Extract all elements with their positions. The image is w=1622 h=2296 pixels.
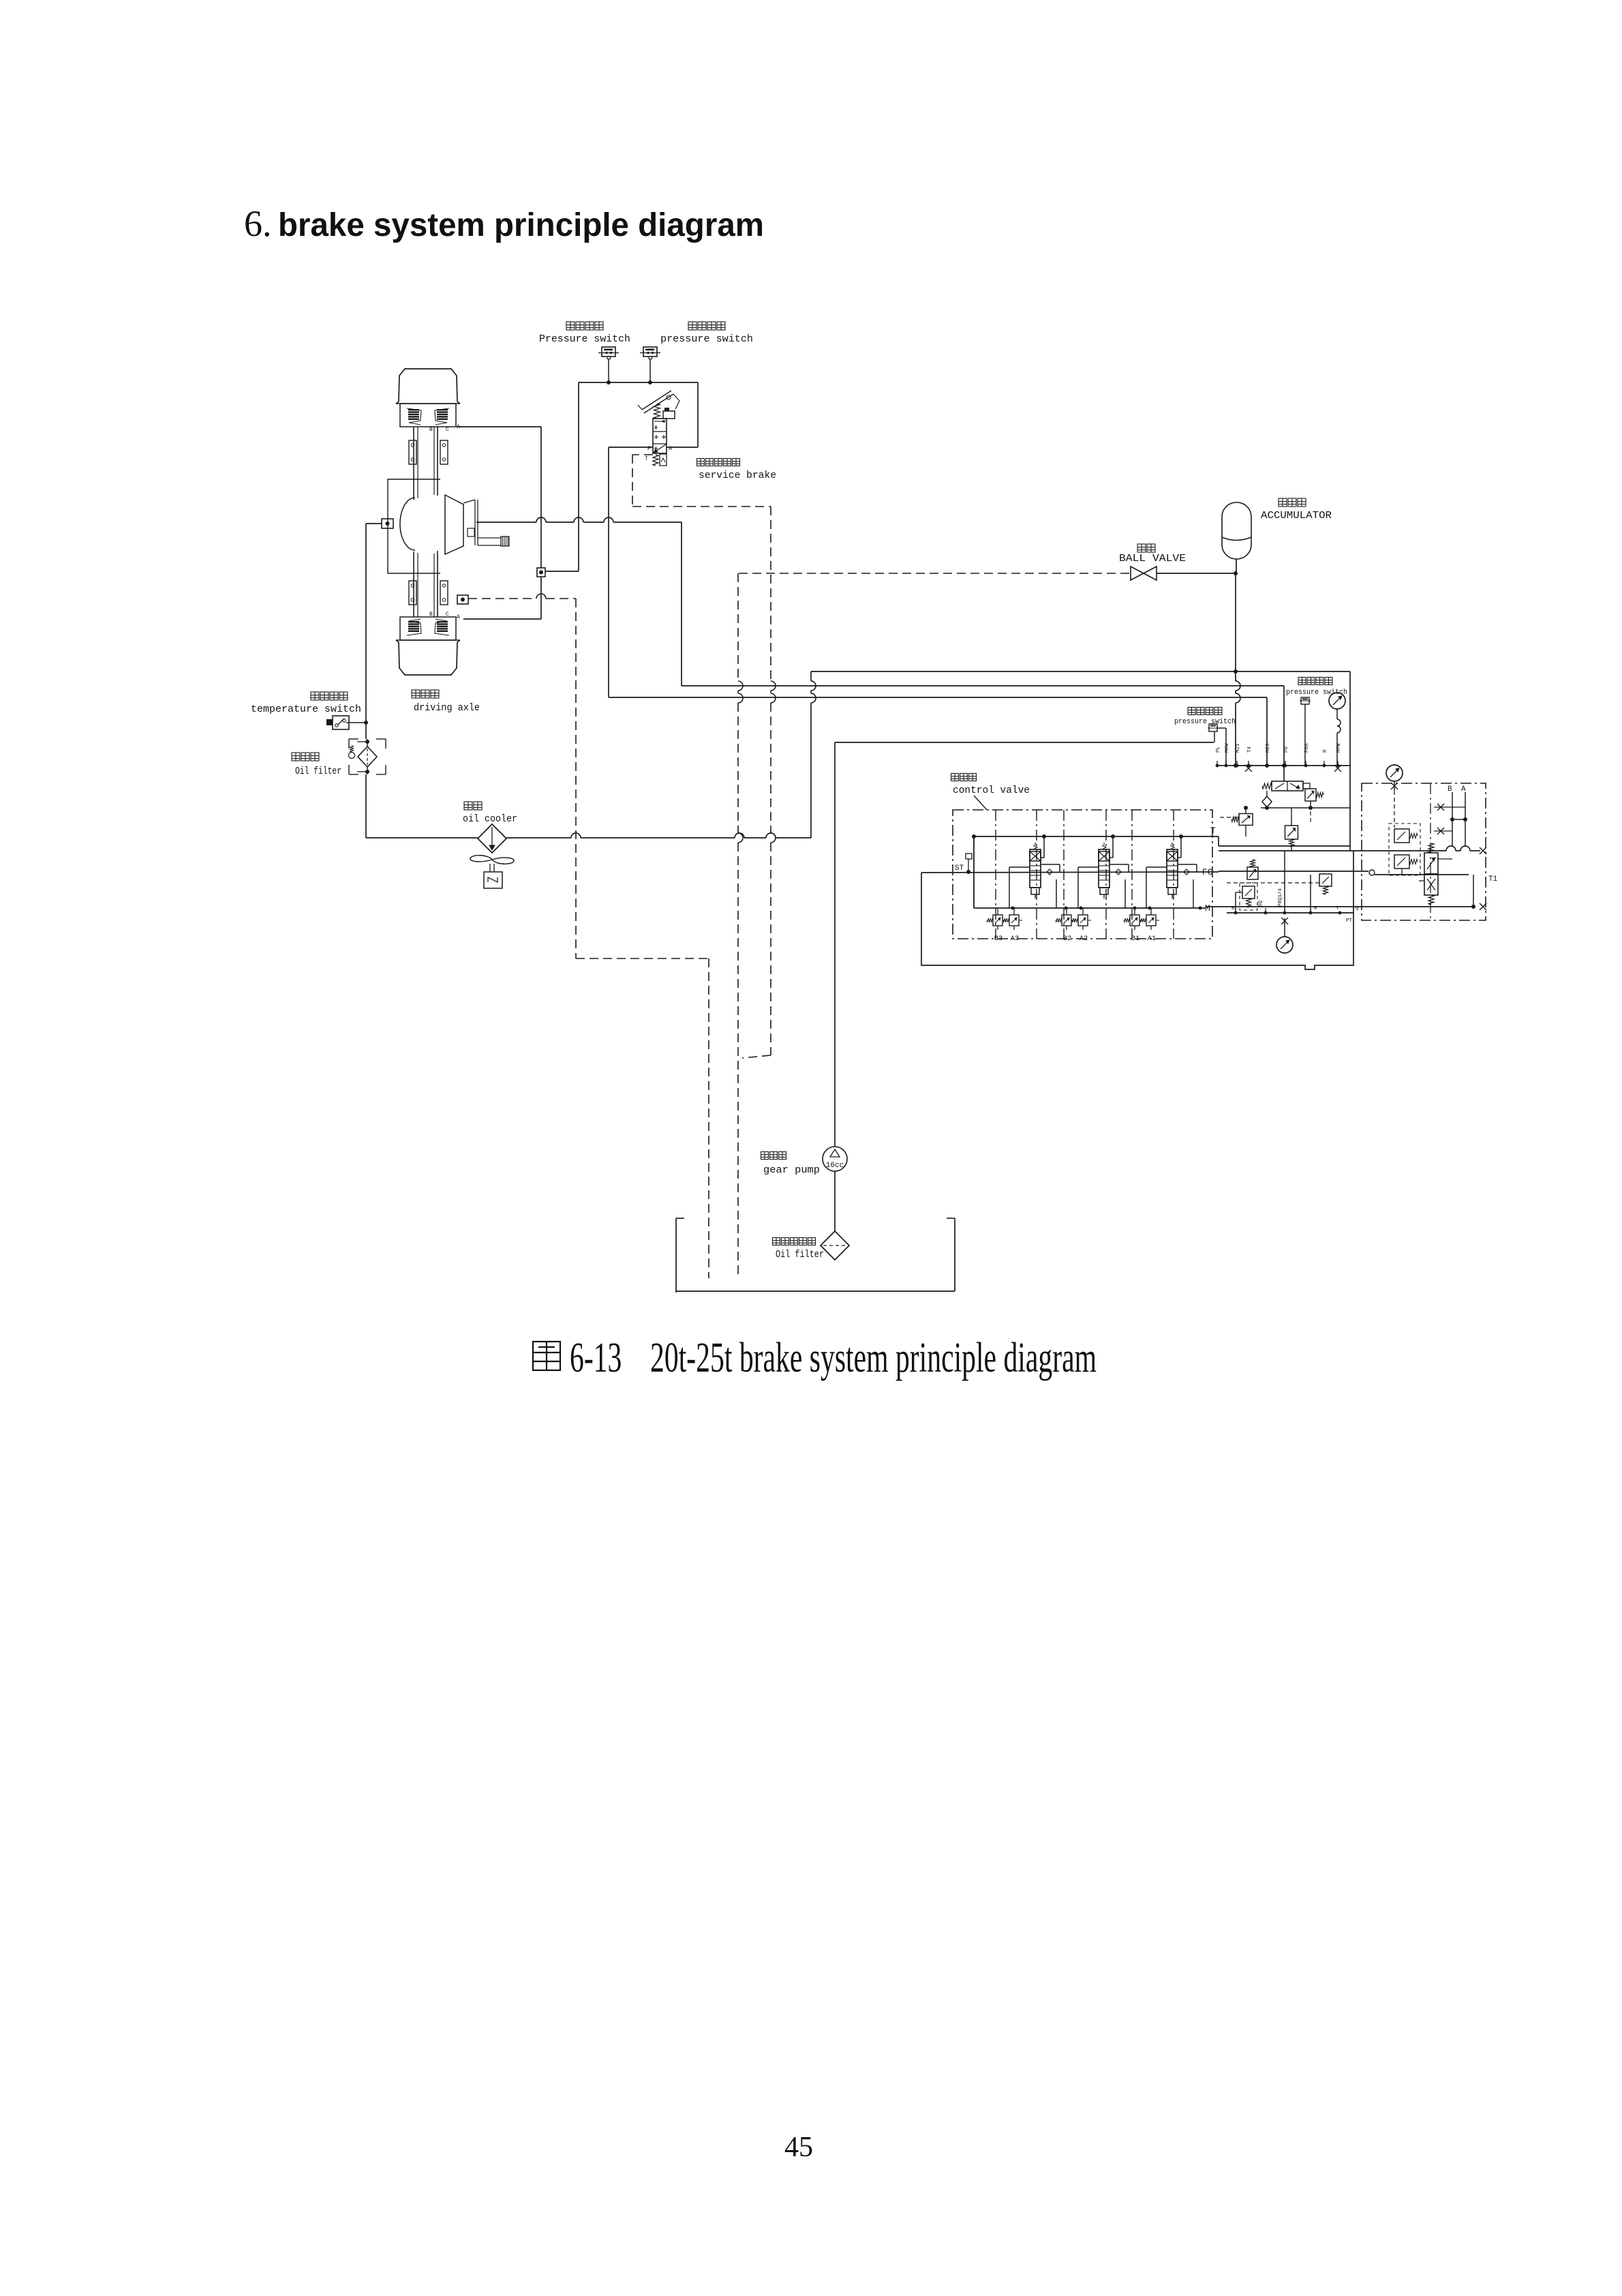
hydraulic tank xyxy=(676,1218,955,1293)
pressure switch PS3 xyxy=(1174,708,1236,766)
port relief valve A1 xyxy=(1140,908,1159,943)
oil cooler xyxy=(463,802,517,853)
svg-text:oil cooler: oil cooler xyxy=(463,813,517,825)
wire xyxy=(1266,697,1268,766)
orifice xyxy=(1434,804,1465,811)
wire xyxy=(1473,875,1498,907)
svg-text:R: R xyxy=(1314,906,1317,911)
svg-text:M21: M21 xyxy=(1236,743,1241,753)
suction oil filter F2 xyxy=(773,1231,850,1260)
pressure gauge G1 xyxy=(1329,693,1345,766)
temperature switch xyxy=(251,692,368,729)
wire: cooler output line xyxy=(506,837,571,839)
relief valve RV6 xyxy=(1389,824,1420,875)
directional valve V2 xyxy=(1419,843,1452,905)
cooling fan xyxy=(470,856,514,888)
wet disc brake (top) xyxy=(400,404,456,427)
relief valve RV5 xyxy=(1227,874,1332,894)
wire: accumulator to valve block xyxy=(1235,573,1236,681)
svg-text:6.: 6. xyxy=(244,203,272,244)
svg-text:T4: T4 xyxy=(1247,746,1253,753)
service brake valve xyxy=(638,391,776,481)
pilot line xyxy=(1220,817,1238,818)
svg-text:pressure switch: pressure switch xyxy=(1174,718,1236,726)
svg-text:Oil filter: Oil filter xyxy=(295,766,341,777)
svg-text:R: R xyxy=(1323,749,1328,753)
wire: service brake tank line xyxy=(632,455,771,507)
port labels xyxy=(1216,743,1342,753)
pilot operated valve block xyxy=(1362,783,1486,920)
svg-text:ST: ST xyxy=(955,864,964,873)
wire: service brake drain hose xyxy=(742,507,776,1058)
relief valve RV7 xyxy=(1394,855,1418,875)
svg-text:B2: B2 xyxy=(1063,935,1072,943)
differential housing xyxy=(388,479,440,573)
port relief valve B3 xyxy=(987,908,1006,943)
svg-text:B: B xyxy=(1231,906,1235,911)
svg-text:B: B xyxy=(429,611,433,618)
accumulator xyxy=(1222,498,1332,575)
wire xyxy=(810,671,812,681)
wire: pressure switch drop line xyxy=(578,382,579,571)
ball valve xyxy=(738,544,1236,580)
spool valve section B2/A2 xyxy=(1078,836,1129,908)
pressure switch PS4 xyxy=(1286,678,1347,766)
svg-text:16cc: 16cc xyxy=(826,1162,844,1170)
wire: B port xyxy=(1448,785,1467,847)
svg-text:MCW: MCW xyxy=(1225,743,1230,753)
pressure gauge G2 xyxy=(1386,765,1403,828)
T gallery junction dots xyxy=(972,834,976,839)
svg-text:PL: PL xyxy=(1216,746,1221,753)
wire: pump pressure line xyxy=(834,742,836,1147)
bottom port labels xyxy=(1231,888,1359,924)
wire: axle drain hose xyxy=(468,594,709,1278)
inner body boundary xyxy=(921,851,1353,969)
figure caption xyxy=(533,1342,560,1370)
svg-text:control valve: control valve xyxy=(953,785,1030,796)
gear pump 16cc xyxy=(761,1147,848,1176)
svg-text:ACCUMULATOR: ACCUMULATOR xyxy=(1261,510,1332,522)
wire: service brake pressure line xyxy=(609,697,1267,698)
port relief valve A3 xyxy=(1003,908,1022,943)
svg-text:C: C xyxy=(446,427,449,433)
svg-text:T: T xyxy=(645,456,648,462)
wire xyxy=(545,571,579,572)
svg-text:P8Q1/4: P8Q1/4 xyxy=(1278,888,1283,907)
svg-text:BALL VALVE: BALL VALVE xyxy=(1119,553,1186,564)
wire: service brake supply xyxy=(608,447,609,697)
brake valve block boundary xyxy=(835,671,1350,851)
svg-text:SQ: SQ xyxy=(1258,900,1264,907)
wire: ST/FC gallery xyxy=(921,854,1219,874)
wire: P main line xyxy=(1219,846,1486,854)
spool valve section B3/A3 xyxy=(1009,836,1060,908)
svg-text:PT: PT xyxy=(1346,918,1353,924)
orifice xyxy=(1434,828,1452,834)
spring mounting plates xyxy=(409,440,416,464)
pilot line xyxy=(1310,811,1311,822)
wire: pressure switch header xyxy=(579,382,698,383)
relief valve RV4 xyxy=(1236,883,1257,913)
svg-text:A3: A3 xyxy=(1011,935,1020,943)
svg-text:T: T xyxy=(1336,906,1339,911)
wire xyxy=(609,447,653,448)
wire: accumulator charge line xyxy=(811,671,1350,672)
svg-text:A: A xyxy=(457,614,460,620)
axle input flange and shaft xyxy=(445,495,463,554)
svg-text:B1: B1 xyxy=(1131,935,1140,943)
svg-text:B: B xyxy=(1448,785,1452,794)
svg-text:A2: A2 xyxy=(1080,935,1088,943)
solenoid valve xyxy=(1262,781,1310,791)
svg-text:pressure switch: pressure switch xyxy=(660,333,753,345)
svg-text:service brake: service brake xyxy=(699,470,776,481)
wire: T line xyxy=(974,836,1350,846)
svg-text:temperature switch: temperature switch xyxy=(251,704,361,715)
wire xyxy=(667,447,698,448)
check valve CV1 xyxy=(1262,791,1272,810)
pressure reducing valve PRV xyxy=(1231,806,1253,836)
svg-text:P: P xyxy=(647,446,651,452)
svg-text:B3: B3 xyxy=(994,935,1003,943)
label: driving axle xyxy=(412,690,420,698)
driving axle assembly xyxy=(388,369,509,714)
wire xyxy=(540,427,542,568)
svg-text:B: B xyxy=(429,427,433,433)
svg-text:C: C xyxy=(446,611,449,618)
svg-text:Pressure switch: Pressure switch xyxy=(539,333,630,345)
wire: M line xyxy=(1206,903,1486,910)
svg-text:gear pump: gear pump xyxy=(763,1164,820,1176)
relief valve RV2 xyxy=(1285,808,1298,851)
fitting: axle left port xyxy=(382,519,393,528)
wire: axle supply line xyxy=(476,522,536,523)
pressure gauge G3 xyxy=(1276,918,1293,953)
wire xyxy=(365,774,367,838)
svg-text:Q: Q xyxy=(1356,906,1359,911)
pressure switch PS1 xyxy=(539,322,630,382)
port relief valve B2 xyxy=(1056,908,1075,943)
wire: brake line A (bottom) xyxy=(463,618,541,620)
oil filter F1 xyxy=(292,739,386,777)
wire: low pressure gallery xyxy=(974,907,1206,909)
control valve block xyxy=(951,774,1213,939)
wire xyxy=(540,577,542,619)
svg-text:driving axle: driving axle xyxy=(414,702,480,714)
svg-text:MPW: MPW xyxy=(1336,743,1342,753)
wire: A port xyxy=(1461,785,1466,847)
fitting: axle right brake port xyxy=(537,568,545,577)
front wheel tire (bottom) xyxy=(396,640,460,675)
svg-text:brake system principle diagram: brake system principle diagram xyxy=(278,207,764,243)
page title xyxy=(244,203,764,244)
wire xyxy=(697,382,699,447)
svg-text:P8A: P8A xyxy=(1304,743,1310,753)
svg-text:A1: A1 xyxy=(1148,935,1157,943)
wire: axle return line xyxy=(365,524,367,739)
wire: axle brake line xyxy=(682,685,1284,686)
axle tube xyxy=(413,427,414,500)
fitting: axle bottom port xyxy=(457,595,468,604)
bottom port bus xyxy=(1227,851,1353,914)
wire xyxy=(973,836,975,908)
svg-text:45: 45 xyxy=(784,2132,813,2163)
wet disc brake (bottom) xyxy=(400,617,456,640)
spool valve section B1/A1 xyxy=(1146,836,1197,908)
svg-text:M23: M23 xyxy=(1266,743,1271,753)
wire: brake line A (top) xyxy=(457,426,541,427)
wire xyxy=(1283,686,1285,781)
wire xyxy=(366,837,478,839)
wire xyxy=(1261,807,1350,809)
svg-text:Oil filter: Oil filter xyxy=(776,1249,824,1260)
wire: pump suction line xyxy=(834,1171,836,1231)
relief valve RV3 xyxy=(1247,860,1258,879)
svg-text:P8: P8 xyxy=(1284,746,1289,753)
relief valve RV1 xyxy=(1305,789,1323,808)
wire xyxy=(681,522,682,686)
svg-text:T: T xyxy=(1210,826,1216,836)
svg-text:T1: T1 xyxy=(1488,875,1498,883)
pressure switch PS2 xyxy=(640,322,753,382)
port relief valve B1 xyxy=(1124,908,1143,943)
wire: ball valve drain hose xyxy=(738,573,743,1278)
svg-text:6-13 20t-25t brake system p: 6-13 20t-25t brake system principle diag… xyxy=(570,1335,1097,1381)
wire xyxy=(366,523,382,524)
wire: FC line to steering xyxy=(1219,870,1469,875)
port relief valve A2 xyxy=(1072,908,1091,943)
svg-text:A: A xyxy=(669,446,672,452)
front wheel tire (top) xyxy=(396,369,460,404)
port manifold bus xyxy=(1216,761,1350,772)
